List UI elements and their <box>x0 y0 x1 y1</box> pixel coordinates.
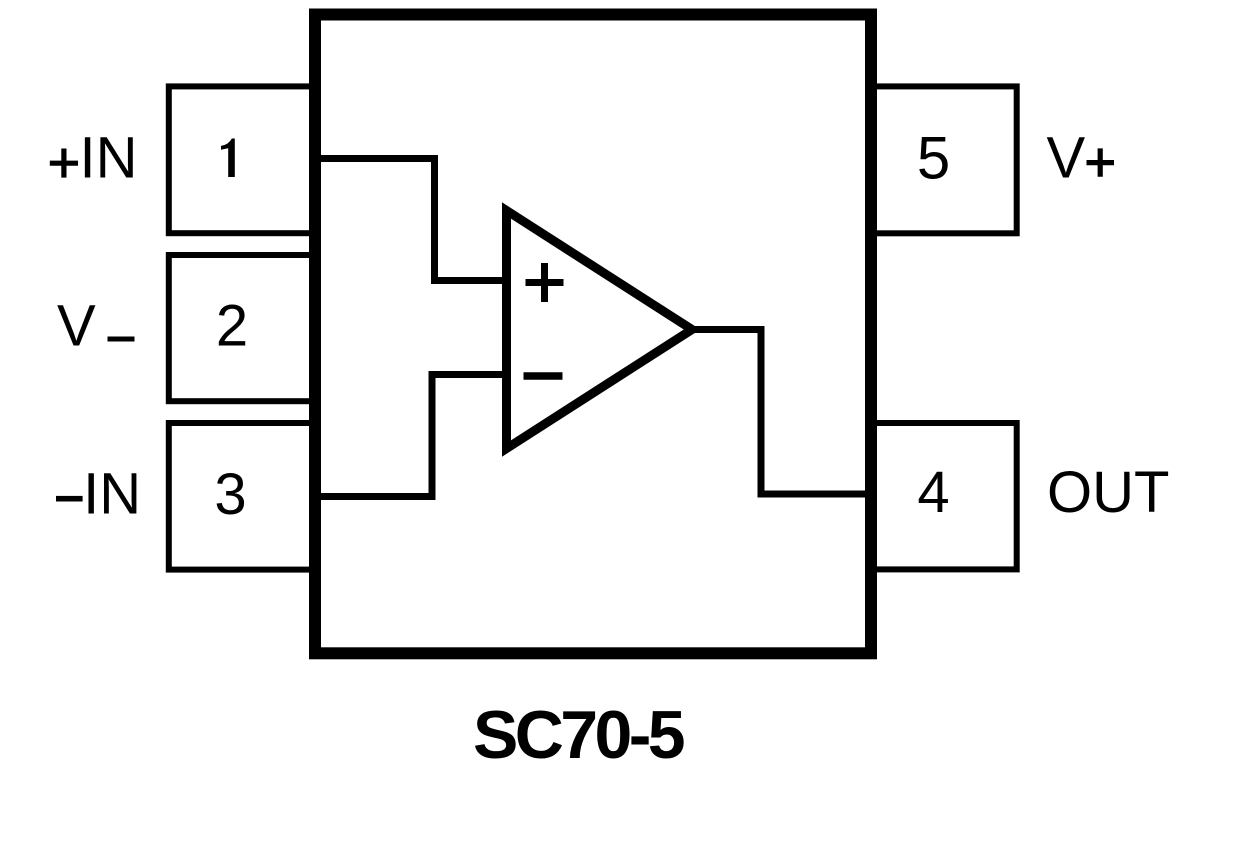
label -IN <box>56 496 83 502</box>
wire output to pin4 <box>690 330 872 495</box>
pin number 1 <box>221 139 235 178</box>
svg-text:V: V <box>57 294 96 359</box>
wire pin3 to -input <box>310 375 505 497</box>
pin 1 box <box>169 86 316 233</box>
svg-text:4: 4 <box>917 460 949 525</box>
package body U1 (SC70-5 outline) <box>315 15 871 654</box>
svg-text:5: 5 <box>917 125 950 192</box>
svg-text:SC70-5: SC70-5 <box>473 697 684 773</box>
svg-text:3: 3 <box>214 462 246 527</box>
svg-text:IN: IN <box>83 462 141 527</box>
svg-text:V: V <box>1047 126 1086 191</box>
svg-text:IN: IN <box>80 126 138 191</box>
pin 4 box <box>870 423 1017 569</box>
op-amp U1 triangle <box>507 211 693 449</box>
label +IN <box>50 149 78 178</box>
pin 5 box <box>870 86 1017 233</box>
svg-text:OUT: OUT <box>1047 460 1169 525</box>
pin 3 box <box>169 423 316 570</box>
wire pin1 to +input <box>310 159 505 281</box>
pin 2 box <box>169 255 316 401</box>
op-amp + input symbol <box>526 263 564 302</box>
op-amp - input symbol <box>524 372 563 380</box>
svg-text:2: 2 <box>216 294 248 359</box>
